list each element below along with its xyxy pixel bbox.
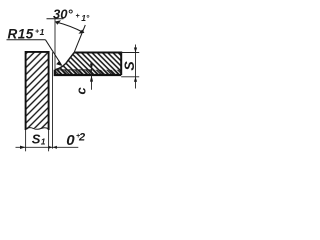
svg-text:30°: 30°	[53, 6, 73, 21]
svg-text:2: 2	[78, 131, 85, 143]
svg-text:R15: R15	[8, 26, 34, 41]
svg-text:0: 0	[66, 132, 75, 149]
svg-text:S: S	[121, 61, 137, 71]
svg-text:1°: 1°	[81, 13, 90, 23]
svg-text:+: +	[35, 29, 39, 36]
svg-text:1: 1	[41, 136, 46, 146]
svg-text:1: 1	[40, 27, 45, 37]
svg-text:c: c	[74, 87, 89, 95]
svg-text:S: S	[32, 131, 41, 146]
svg-text:+: +	[76, 13, 80, 20]
